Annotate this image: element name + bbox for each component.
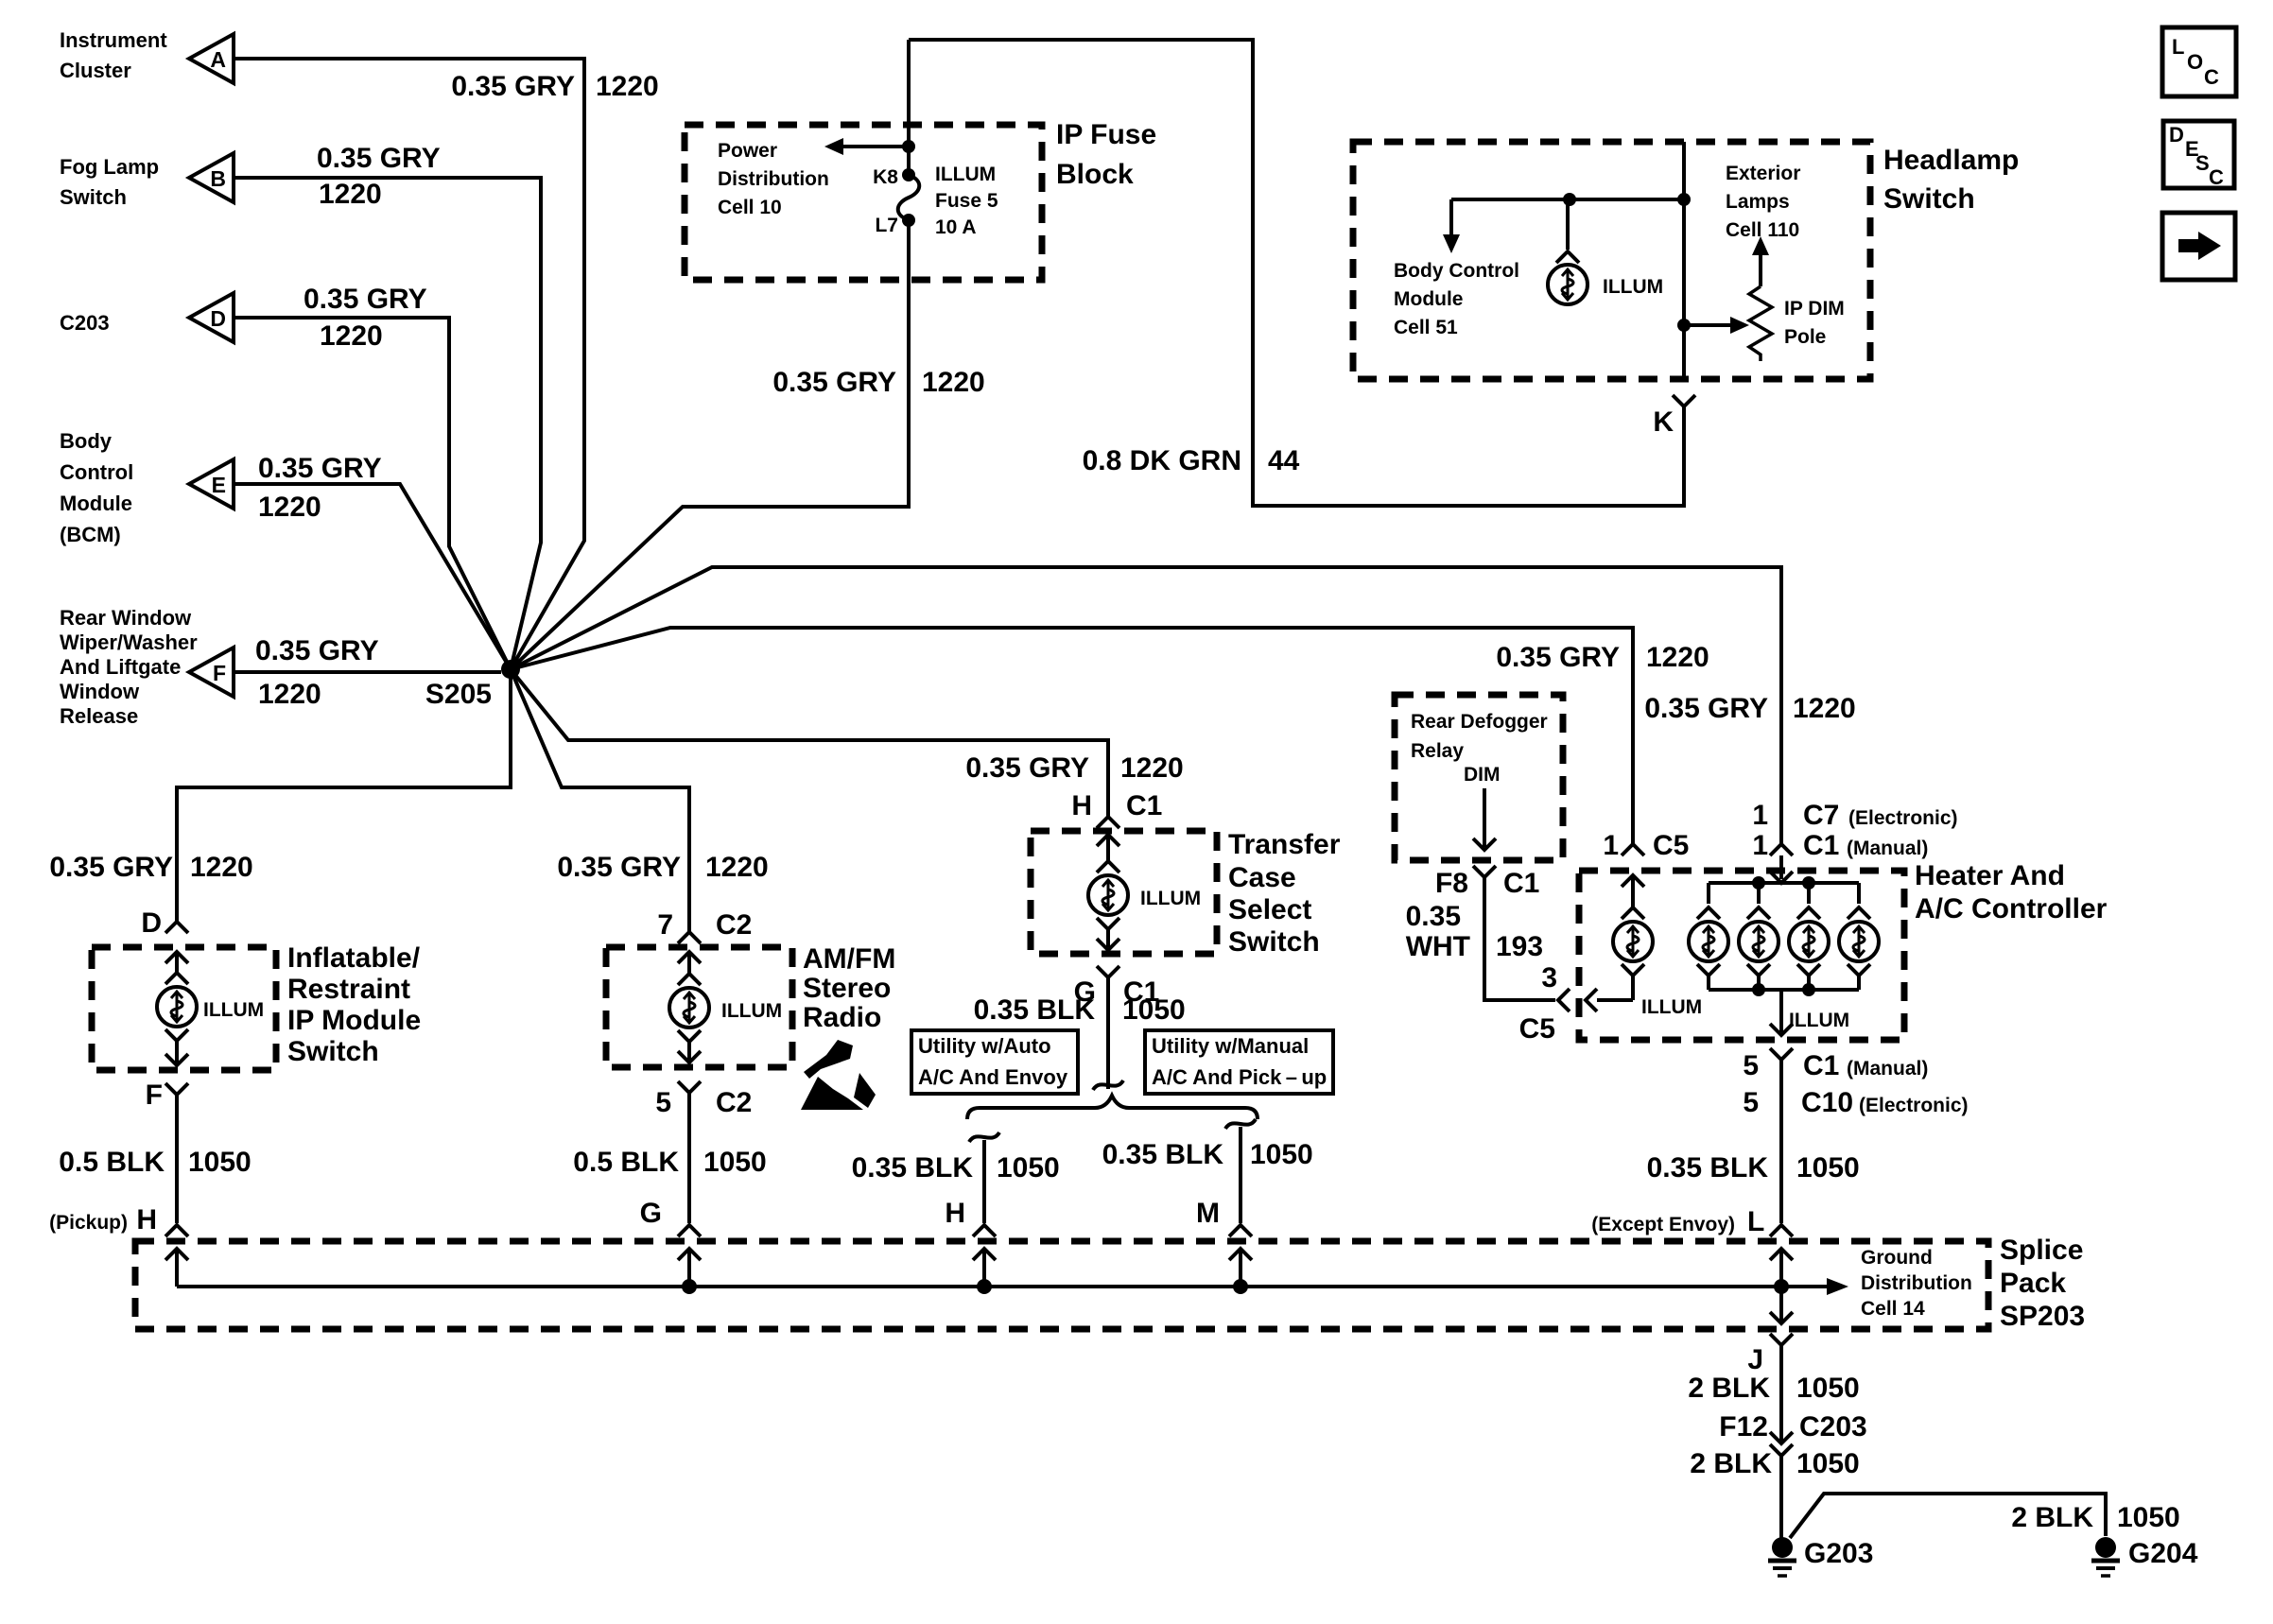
svg-text:Release: Release — [60, 704, 138, 728]
svg-text:1050: 1050 — [1250, 1139, 1313, 1170]
svg-text:Select: Select — [1228, 894, 1311, 925]
svg-text:Pack: Pack — [2000, 1268, 2066, 1299]
svg-text:1220: 1220 — [190, 852, 253, 883]
svg-text:IP DIM: IP DIM — [1784, 298, 1845, 320]
svg-text:Window: Window — [60, 680, 140, 703]
svg-text:C: C — [2204, 65, 2219, 89]
svg-text:Headlamp: Headlamp — [1883, 145, 2019, 176]
svg-text:0.35 GRY: 0.35 GRY — [557, 852, 681, 883]
svg-text:Control: Control — [60, 460, 133, 484]
svg-text:0.5 BLK: 0.5 BLK — [59, 1147, 165, 1178]
svg-text:C: C — [2209, 165, 2224, 189]
svg-text:M: M — [1196, 1198, 1220, 1229]
svg-text:G204: G204 — [2128, 1538, 2198, 1569]
svg-text:1050: 1050 — [188, 1147, 252, 1178]
svg-text:D: D — [141, 907, 162, 939]
svg-text:0.35 BLK: 0.35 BLK — [852, 1152, 974, 1183]
svg-text:1220: 1220 — [319, 179, 382, 210]
svg-text:AM/FM: AM/FM — [803, 943, 895, 975]
svg-text:1220: 1220 — [705, 852, 769, 883]
svg-text:IP Fuse: IP Fuse — [1056, 119, 1156, 150]
svg-text:0.35 GRY: 0.35 GRY — [1644, 693, 1768, 724]
svg-text:2 BLK: 2 BLK — [1690, 1448, 1772, 1479]
svg-text:Ground: Ground — [1861, 1247, 1933, 1269]
svg-text:Radio: Radio — [803, 1002, 881, 1033]
svg-text:C203: C203 — [60, 311, 110, 335]
svg-text:And Liftgate: And Liftgate — [60, 655, 181, 679]
svg-text:ILLUM: ILLUM — [1789, 1010, 1849, 1031]
svg-text:Wiper/Washer: Wiper/Washer — [60, 631, 198, 654]
svg-text:Distribution: Distribution — [1861, 1272, 1972, 1294]
svg-text:ILLUM: ILLUM — [1603, 276, 1663, 298]
svg-text:H: H — [945, 1198, 965, 1229]
svg-text:E: E — [212, 473, 226, 497]
svg-text:0.35 GRY: 0.35 GRY — [49, 852, 173, 883]
svg-text:Inflatable/: Inflatable/ — [287, 942, 421, 974]
svg-text:C5: C5 — [1653, 830, 1689, 861]
svg-text:Stereo: Stereo — [803, 973, 891, 1004]
svg-text:Switch: Switch — [1228, 926, 1320, 958]
svg-text:C1: C1 — [1126, 790, 1162, 821]
svg-text:D: D — [210, 306, 226, 331]
svg-text:Utility w/Manual: Utility w/Manual — [1152, 1034, 1309, 1058]
svg-text:(Electronic): (Electronic) — [1859, 1095, 1969, 1116]
svg-text:C7: C7 — [1803, 800, 1839, 831]
svg-text:(Except Envoy): (Except Envoy) — [1591, 1214, 1735, 1235]
svg-text:H: H — [136, 1204, 157, 1235]
svg-text:0.35 GRY: 0.35 GRY — [772, 367, 896, 398]
svg-text:1: 1 — [1603, 830, 1619, 861]
svg-text:0.5 BLK: 0.5 BLK — [573, 1147, 679, 1178]
svg-text:Exterior: Exterior — [1726, 163, 1800, 184]
svg-text:Distribution: Distribution — [718, 168, 829, 190]
svg-text:ILLUM: ILLUM — [935, 164, 996, 185]
svg-text:1: 1 — [1752, 830, 1768, 861]
svg-text:Transfer: Transfer — [1228, 829, 1341, 860]
svg-text:WHT: WHT — [1406, 931, 1470, 962]
svg-text:5: 5 — [655, 1087, 671, 1118]
svg-text:H: H — [1071, 790, 1092, 821]
svg-text:0.35 GRY: 0.35 GRY — [965, 752, 1089, 784]
svg-text:O: O — [2187, 50, 2203, 74]
svg-text:DIM: DIM — [1464, 764, 1501, 786]
svg-text:Power: Power — [718, 140, 777, 162]
svg-text:(BCM): (BCM) — [60, 523, 121, 546]
svg-text:1220: 1220 — [258, 679, 321, 710]
svg-text:(Manual): (Manual) — [1847, 1058, 1928, 1080]
svg-text:ILLUM: ILLUM — [1140, 888, 1201, 909]
svg-text:44: 44 — [1268, 445, 1300, 476]
svg-text:Cell 51: Cell 51 — [1394, 317, 1458, 338]
svg-text:Fog Lamp: Fog Lamp — [60, 155, 159, 179]
svg-text:G: G — [640, 1198, 662, 1229]
svg-text:3: 3 — [1541, 962, 1557, 993]
svg-text:L: L — [2172, 35, 2184, 59]
svg-text:SP203: SP203 — [2000, 1301, 2085, 1332]
svg-text:5: 5 — [1743, 1087, 1759, 1118]
svg-text:1220: 1220 — [922, 367, 985, 398]
svg-text:Module: Module — [60, 492, 132, 515]
svg-text:C10: C10 — [1801, 1087, 1853, 1118]
svg-text:1050: 1050 — [2117, 1502, 2180, 1533]
svg-text:Rear Defogger: Rear Defogger — [1411, 711, 1548, 733]
svg-text:Switch: Switch — [287, 1036, 379, 1067]
svg-text:Body Control: Body Control — [1394, 260, 1519, 282]
svg-text:Fuse 5: Fuse 5 — [935, 190, 998, 212]
svg-text:0.35 GRY: 0.35 GRY — [451, 71, 575, 102]
svg-text:1050: 1050 — [1122, 994, 1186, 1026]
svg-text:Splice: Splice — [2000, 1235, 2083, 1266]
svg-text:1220: 1220 — [258, 492, 321, 523]
svg-text:A: A — [210, 47, 226, 72]
svg-text:2 BLK: 2 BLK — [2011, 1502, 2093, 1533]
svg-text:0.35 GRY: 0.35 GRY — [1496, 642, 1620, 673]
svg-text:K8: K8 — [873, 166, 898, 188]
svg-text:L: L — [1747, 1206, 1764, 1237]
svg-text:C1: C1 — [1503, 868, 1539, 899]
svg-text:A/C And Envoy: A/C And Envoy — [918, 1065, 1068, 1089]
svg-text:Cell 14: Cell 14 — [1861, 1298, 1925, 1320]
svg-text:(Manual): (Manual) — [1847, 838, 1928, 859]
svg-text:Pole: Pole — [1784, 326, 1826, 348]
svg-text:1220: 1220 — [320, 320, 383, 352]
svg-text:5: 5 — [1743, 1050, 1759, 1081]
svg-text:Cell 110: Cell 110 — [1726, 219, 1799, 241]
svg-text:C2: C2 — [716, 909, 752, 941]
svg-text:Body: Body — [60, 429, 113, 453]
svg-text:J: J — [1747, 1344, 1763, 1375]
svg-text:Heater And: Heater And — [1915, 860, 2065, 891]
svg-text:Switch: Switch — [60, 185, 127, 209]
svg-text:Rear Window: Rear Window — [60, 606, 192, 630]
svg-text:Cluster: Cluster — [60, 59, 131, 82]
svg-text:2 BLK: 2 BLK — [1688, 1373, 1770, 1404]
svg-text:L7: L7 — [875, 215, 898, 236]
svg-text:Block: Block — [1056, 159, 1134, 190]
svg-text:1220: 1220 — [1646, 642, 1709, 673]
svg-text:1050: 1050 — [703, 1147, 767, 1178]
svg-text:Lamps: Lamps — [1726, 191, 1790, 213]
svg-text:ILLUM: ILLUM — [203, 999, 264, 1021]
svg-text:Utility w/Auto: Utility w/Auto — [918, 1034, 1051, 1058]
svg-text:(Electronic): (Electronic) — [1848, 807, 1958, 829]
svg-text:1050: 1050 — [1796, 1448, 1860, 1479]
svg-text:Switch: Switch — [1883, 183, 1975, 215]
svg-text:S205: S205 — [425, 679, 492, 710]
svg-text:C2: C2 — [716, 1087, 752, 1118]
svg-text:Module: Module — [1394, 288, 1464, 310]
svg-text:0.35: 0.35 — [1406, 901, 1461, 932]
svg-text:A/C Controller: A/C Controller — [1915, 893, 2108, 924]
svg-text:F8: F8 — [1435, 868, 1468, 899]
svg-text:1220: 1220 — [596, 71, 659, 102]
svg-text:A/C And Pick – up: A/C And Pick – up — [1152, 1065, 1327, 1089]
svg-text:F: F — [146, 1080, 163, 1111]
svg-text:C1: C1 — [1803, 830, 1839, 861]
svg-text:0.35 BLK: 0.35 BLK — [1102, 1139, 1224, 1170]
svg-text:K: K — [1653, 406, 1674, 438]
svg-text:193: 193 — [1496, 931, 1543, 962]
svg-text:Relay: Relay — [1411, 740, 1464, 762]
svg-text:IP Module: IP Module — [287, 1005, 421, 1036]
svg-text:0.35 BLK: 0.35 BLK — [974, 994, 1096, 1026]
svg-text:0.35 GRY: 0.35 GRY — [317, 143, 441, 174]
svg-text:F12: F12 — [1719, 1411, 1768, 1443]
svg-text:ILLUM: ILLUM — [721, 1000, 782, 1022]
svg-text:Cell 10: Cell 10 — [718, 197, 782, 218]
svg-text:0.35 GRY: 0.35 GRY — [255, 635, 379, 666]
svg-text:10 A: 10 A — [935, 216, 977, 238]
svg-text:7: 7 — [657, 909, 673, 941]
svg-text:D: D — [2169, 123, 2184, 147]
svg-text:Restraint: Restraint — [287, 974, 410, 1005]
svg-text:Case: Case — [1228, 862, 1296, 893]
svg-text:1050: 1050 — [997, 1152, 1060, 1183]
svg-text:B: B — [210, 166, 226, 191]
svg-text:1: 1 — [1752, 800, 1768, 831]
svg-text:0.35 GRY: 0.35 GRY — [304, 284, 427, 315]
svg-text:C5: C5 — [1519, 1013, 1555, 1045]
svg-text:G203: G203 — [1804, 1538, 1873, 1569]
svg-text:ILLUM: ILLUM — [1641, 996, 1702, 1018]
svg-text:0.8 DK GRN: 0.8 DK GRN — [1083, 445, 1241, 476]
svg-text:1220: 1220 — [1120, 752, 1184, 784]
svg-text:0.35 GRY: 0.35 GRY — [258, 453, 382, 484]
svg-text:1050: 1050 — [1796, 1152, 1860, 1183]
svg-text:F: F — [213, 661, 226, 685]
svg-text:C203: C203 — [1799, 1411, 1867, 1443]
svg-text:0.35 BLK: 0.35 BLK — [1647, 1152, 1769, 1183]
svg-text:1050: 1050 — [1796, 1373, 1860, 1404]
svg-text:1220: 1220 — [1793, 693, 1856, 724]
svg-text:Instrument: Instrument — [60, 28, 167, 52]
svg-text:S: S — [2195, 151, 2210, 175]
svg-text:C1: C1 — [1803, 1050, 1839, 1081]
svg-text:(Pickup): (Pickup) — [49, 1212, 128, 1234]
